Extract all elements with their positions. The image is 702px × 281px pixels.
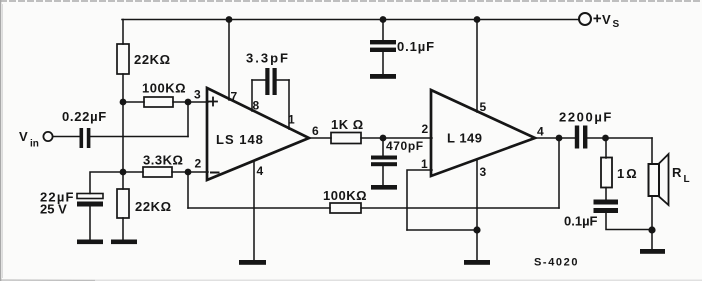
svg-text:3: 3 (194, 88, 201, 102)
junction: pin 1 / pin 3 ground node (473, 226, 480, 233)
junction: node A / R2 (120, 99, 127, 106)
wire: U2 output to C6 (535, 137, 575, 139)
wire: C3 bracket right (276, 79, 289, 81)
wire: C2 tap from node A (90, 172, 123, 194)
junction: rail / pin 7 wire (226, 16, 233, 23)
wire: feedback from pin 2 node down (187, 172, 189, 208)
wire: C3 bracket left (252, 79, 266, 81)
wire: U2 pin 3 to ground (476, 159, 478, 260)
capacitor C1 0.22µF (62, 109, 107, 148)
wire: feedback run to R6 (crosses pin 4 wire, no dot) (188, 207, 330, 209)
wire: U2 pin 1 stub (407, 170, 432, 230)
svg-text:V: V (602, 12, 611, 27)
svg-text:4: 4 (257, 164, 264, 178)
wire: R2 to U1 pin 3 (173, 101, 208, 103)
resistor R4 22KΩ (117, 189, 172, 218)
svg-text:1K Ω: 1K Ω (331, 117, 364, 132)
wire: rail to U1 pin 7 (228, 20, 230, 101)
junction: speaker ground node (648, 226, 655, 233)
op-amp U2 L 149 (431, 90, 535, 176)
frame left (0, 0, 1, 281)
junction: rail / pin 5 wire (474, 16, 481, 23)
wire: bias node A vertical (R1 to R4) (122, 74, 124, 189)
wire: pin 1 run to pin 3 ground node (407, 229, 477, 231)
svg-text:0.1µF: 0.1µF (397, 39, 435, 54)
wire: U1 output to R5 (309, 137, 331, 139)
svg-text:2200µF: 2200µF (559, 110, 613, 125)
junction: C6 out / R7 (602, 135, 609, 142)
wire: C6 to speaker (587, 137, 652, 139)
capacitor C5 470pF (371, 138, 424, 166)
speaker RL (649, 154, 690, 205)
U1 plus input marking (209, 98, 217, 106)
wire: C1 to pin 3 riser (crosses node A, no dot) (90, 136, 188, 138)
junction: pin 2 node / feedback (185, 169, 192, 176)
junction: node A / R3 / C2 (120, 169, 127, 176)
wire: R6 to output node (crosses pin 1 wire, no dot) (361, 207, 559, 209)
svg-text:2: 2 (195, 157, 202, 171)
wire: node A to R2 (123, 101, 144, 103)
wire: down to R7 (605, 138, 607, 158)
capacitor C3 3.3pF (246, 51, 290, 96)
svg-text:25 V: 25 V (40, 202, 67, 217)
junction: pin 3 node / input wire (185, 99, 192, 106)
wire: C5 to ground (382, 166, 384, 185)
resistor R6 100KΩ (323, 188, 367, 213)
wire: U1 pin 8 riser (251, 80, 253, 111)
resistor R3 3.3KΩ (143, 153, 183, 178)
svg-text:4: 4 (537, 125, 544, 139)
wire: U1 pin 4 to ground (253, 161, 255, 260)
svg-text:470pF: 470pF (386, 139, 424, 153)
wire: R5 to U2 pin 2 (361, 137, 432, 139)
svg-text:in: in (30, 139, 39, 150)
U1 minus input marking (211, 172, 219, 174)
svg-text:100KΩ: 100KΩ (323, 188, 367, 203)
svg-text:3.3KΩ: 3.3KΩ (143, 153, 183, 168)
svg-text:22KΩ: 22KΩ (135, 199, 172, 214)
ground: C2 (77, 240, 103, 245)
frame bottom (0, 279, 702, 281)
wire: C2 to ground (89, 207, 91, 240)
capacitor C6 2200µF (559, 110, 613, 149)
svg-text:100KΩ: 100KΩ (142, 81, 186, 96)
svg-text:0.1µF: 0.1µF (564, 214, 598, 229)
svg-text:3: 3 (480, 165, 487, 179)
svg-text:S: S (613, 19, 620, 30)
svg-text:2: 2 (422, 122, 429, 136)
svg-text:L: L (684, 174, 690, 185)
wire: R4 to ground (122, 218, 124, 240)
wire: speaker to ground node (651, 196, 653, 230)
svg-text:R: R (672, 165, 682, 180)
resistor R5 1KΩ (331, 117, 364, 144)
wire: C4 to ground (382, 52, 384, 74)
svg-text:6: 6 (312, 124, 319, 138)
wire: node to ground (651, 230, 653, 249)
svg-text:L 149: L 149 (447, 131, 483, 146)
wire: node A to R3 (123, 171, 143, 173)
svg-text:1: 1 (288, 113, 295, 127)
junction: rail / C4 (380, 16, 387, 23)
capacitor C2 22µF 25V electrolytic (40, 190, 103, 217)
wire: rail down to R1 (122, 20, 124, 45)
svg-text:LS 148: LS 148 (216, 132, 264, 147)
ground: C5 (371, 185, 397, 190)
op-amp U1 LS 148 (207, 88, 309, 180)
resistor R1 22KΩ (117, 44, 171, 74)
wire: R7 to C7 (605, 188, 607, 200)
svg-text:V: V (19, 129, 28, 144)
wire: C7 to speaker ground node (606, 213, 652, 230)
wire: riser up to pin 3 node (187, 102, 189, 137)
ground: C4 (370, 74, 396, 79)
ground: R4 (111, 240, 137, 245)
wire: feedback riser to output node (558, 138, 560, 208)
ground: speaker (640, 249, 665, 254)
junction: output node / feedback (556, 135, 563, 142)
terminal +Vs (579, 12, 620, 30)
svg-text:1Ω: 1Ω (617, 166, 639, 181)
ground: U2 pin 3 (464, 260, 490, 265)
svg-text:8: 8 (253, 99, 260, 113)
resistor R2 100KΩ (142, 81, 186, 108)
wire: +Vs supply rail (122, 19, 579, 21)
frame top (0, 0, 702, 2)
svg-text:7: 7 (231, 90, 238, 104)
wire: U1 pin 1 riser (288, 80, 290, 129)
resistor R7 1Ω (601, 158, 639, 188)
svg-text:5: 5 (480, 100, 487, 114)
junction: R5 out / C5 (380, 135, 387, 142)
capacitor C4 0.1µF supply decoupling (370, 20, 435, 55)
svg-text:22KΩ: 22KΩ (134, 52, 171, 67)
svg-text:0.22µF: 0.22µF (62, 109, 107, 124)
ground: U1 pin 4 (239, 260, 266, 265)
wire: speaker top feed (651, 138, 653, 164)
svg-text:S-4020: S-4020 (534, 257, 579, 269)
node Vin input terminal (19, 129, 53, 150)
wire: R3 to U1 pin 2 (172, 171, 208, 173)
capacitor C7 0.1µF zobel (564, 200, 618, 229)
wire: rail to U2 pin 5 (476, 20, 478, 113)
svg-text:3.3pF: 3.3pF (246, 51, 290, 66)
svg-text:1: 1 (421, 157, 428, 171)
wire: Vin terminal to C1 (53, 136, 79, 138)
